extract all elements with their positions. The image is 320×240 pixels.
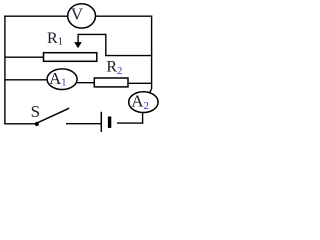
svg-text:R1: R1 — [47, 30, 63, 48]
ammeter A2 body — [129, 92, 158, 113]
battery BT1 short thick plate — [108, 117, 111, 128]
resistor R1 (rheostat) body — [44, 53, 97, 62]
svg-text:S: S — [31, 102, 40, 121]
wire battery right to A2 — [117, 122, 143, 124]
wire rheostat left lead — [5, 56, 44, 58]
resistor R1 slider arrowhead — [74, 42, 82, 48]
wire right vertical — [150, 16, 152, 93]
svg-text:V: V — [71, 4, 84, 23]
wire A2 bottom stub — [142, 112, 144, 124]
wire bottom-left horizontal — [4, 123, 35, 125]
voltmeter V1 body — [68, 4, 96, 28]
switch S blade — [38, 108, 69, 122]
wire left vertical — [4, 16, 6, 125]
resistor R2 body — [94, 78, 128, 87]
wire top-right horizontal — [95, 15, 152, 17]
wire A1 to R2 — [76, 82, 94, 84]
wire R2 right lead — [128, 82, 152, 84]
svg-text:R2: R2 — [106, 58, 122, 77]
ammeter A1 body — [47, 69, 77, 90]
wire top-left horizontal — [4, 15, 68, 17]
wire switch to battery — [66, 123, 101, 125]
switch S pivot dot — [35, 122, 39, 126]
wire ammeter A1 left lead — [5, 79, 48, 81]
wire slider to right vertical — [78, 34, 152, 55]
battery BT1 long plate — [100, 112, 102, 132]
